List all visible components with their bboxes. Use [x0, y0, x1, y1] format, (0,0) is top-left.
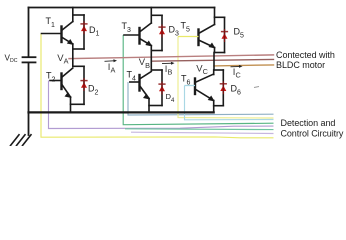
- label VB: [138, 59, 151, 68]
- wire T6 emitter down to rail end: [213, 101, 215, 113]
- transistor T2 (BJT) emitter lead with arrowhead: [62, 84, 71, 97]
- wire emitter bracket leg3: [215, 52, 225, 54]
- node line V_A phase to motor: [69, 55, 274, 59]
- transistor T6 (BJT) base bar: [194, 79, 196, 95]
- wire top DC rail: [29, 7, 215, 9]
- wire bottom bracket leg1: [71, 103, 85, 105]
- wire top bracket leg1: [73, 14, 84, 16]
- transistor T1 (BJT) emitter lead with arrowhead: [62, 37, 73, 44]
- wire emitter bracket leg2: [151, 50, 162, 52]
- wire T5 base lead (yellow): [178, 36, 199, 38]
- wire T4 gate (slate blue): [128, 82, 274, 115]
- transistor T5 (BJT) collector lead: [199, 25, 215, 34]
- label VC: [196, 63, 209, 75]
- wire T1 gate (yellow): [41, 34, 274, 138]
- diode D4: [159, 86, 165, 92]
- transistor T4 (BJT) base bar: [138, 75, 140, 91]
- wire bottom bracket leg3: [214, 105, 224, 107]
- capacitor VDC top plate: [23, 56, 36, 58]
- wire T1 emitter to bracket: [72, 44, 74, 49]
- diode D1 branch wire: [83, 15, 85, 49]
- wire T5 emitter to bracket: [214, 48, 216, 53]
- svg-text:Detection and: Detection and: [281, 118, 336, 128]
- wire phase drop node VC: [213, 53, 215, 71]
- wire left bus upper (Vdc to capacitor): [28, 8, 30, 58]
- transistor T4 (BJT) emitter lead with arrowhead: [140, 86, 150, 99]
- diode D6: [220, 86, 226, 92]
- wire T6 collector join: [213, 70, 215, 75]
- transistor T6 (BJT) collector lead: [195, 74, 214, 83]
- node line V_B phase to motor: [151, 59, 274, 61]
- transistor T2 (BJT) collector lead: [62, 68, 73, 78]
- label IB with arrow overline: [162, 62, 173, 64]
- wire T4 base lead: [130, 81, 140, 83]
- transistor T3 (BJT) emitter lead with arrowhead: [140, 39, 152, 46]
- diode D2 branch wire: [83, 66, 85, 104]
- wire T5 gate (pale yellow): [178, 37, 274, 119]
- wire pale lavender sense line: [131, 132, 274, 133]
- wire T2 emitter down to rail: [70, 97, 72, 112]
- wire T4 emitter down to rail: [148, 99, 150, 113]
- wire T2 gate (lavender): [49, 81, 274, 129]
- wire T1 base lead: [42, 33, 62, 35]
- transistor T3 (BJT) base bar: [138, 28, 140, 44]
- label IA with arrow overline: [105, 60, 116, 63]
- svg-text:Contected with: Contected with: [276, 50, 335, 60]
- svg-text:BLDC motor: BLDC motor: [276, 60, 325, 70]
- diode D4 branch wire: [161, 70, 163, 106]
- wire T6 gate (pale cyan): [185, 86, 274, 120]
- wire T4 top bracket leg2: [151, 69, 162, 71]
- diode D5: [222, 33, 228, 39]
- artifact dash: [254, 87, 259, 88]
- diode D3: [159, 29, 165, 35]
- diode D2: [81, 82, 87, 88]
- wire top bracket leg2: [151, 14, 162, 16]
- diode D1: [81, 26, 87, 32]
- transistor T1 (BJT) base bar: [60, 27, 62, 43]
- wire T6 base lead (cyan): [185, 85, 196, 87]
- wire T3 base lead: [124, 34, 140, 36]
- wire T3 collector stub from rail: [150, 8, 152, 24]
- wire phase drop node VA: [72, 49, 74, 66]
- label IC with arrow overline: [231, 65, 242, 67]
- diode D6 branch wire: [222, 70, 224, 106]
- wire T6 top bracket leg3: [214, 69, 223, 71]
- transistor T1 (BJT) collector lead: [62, 22, 73, 31]
- wire T5 collector stub (rail end turns down): [214, 8, 216, 25]
- wire left bus lower (capacitor to bottom rail): [28, 62, 30, 112]
- transistor T5 (BJT) base bar: [197, 30, 199, 46]
- wire top bracket leg3: [215, 16, 225, 18]
- wire bottom bracket leg2: [149, 105, 162, 107]
- wire T1 collector stub from rail: [72, 8, 74, 22]
- wire phase drop node VB: [150, 51, 152, 71]
- ground stem: [28, 112, 30, 135]
- transistor T4 (BJT) collector lead: [140, 72, 152, 80]
- transistor T6 (BJT) emitter lead with arrowhead: [195, 89, 214, 101]
- wire emitter bracket leg1: [73, 48, 84, 50]
- diode D5 branch wire: [224, 17, 226, 52]
- wire T3 gate (green): [123, 35, 273, 125]
- capacitor VDC bottom plate: [23, 61, 36, 63]
- ground symbol (three hatches): [11, 135, 20, 146]
- wire T2 base lead: [50, 80, 62, 82]
- transistor T5 (BJT) emitter lead with arrowhead: [199, 40, 215, 48]
- wire bottom DC rail: [29, 111, 214, 113]
- svg-text:Control Circuitry: Control Circuitry: [281, 128, 344, 138]
- wire T2 top bracket leg1: [73, 65, 84, 67]
- transistor T2 (BJT) base bar: [60, 74, 62, 90]
- diode D3 branch wire: [161, 15, 163, 50]
- wire T3 emitter to bracket: [150, 46, 152, 51]
- wire teal sense line: [125, 128, 274, 131]
- node line V_C phase to motor: [214, 65, 274, 66]
- transistor T3 (BJT) collector lead: [140, 23, 152, 32]
